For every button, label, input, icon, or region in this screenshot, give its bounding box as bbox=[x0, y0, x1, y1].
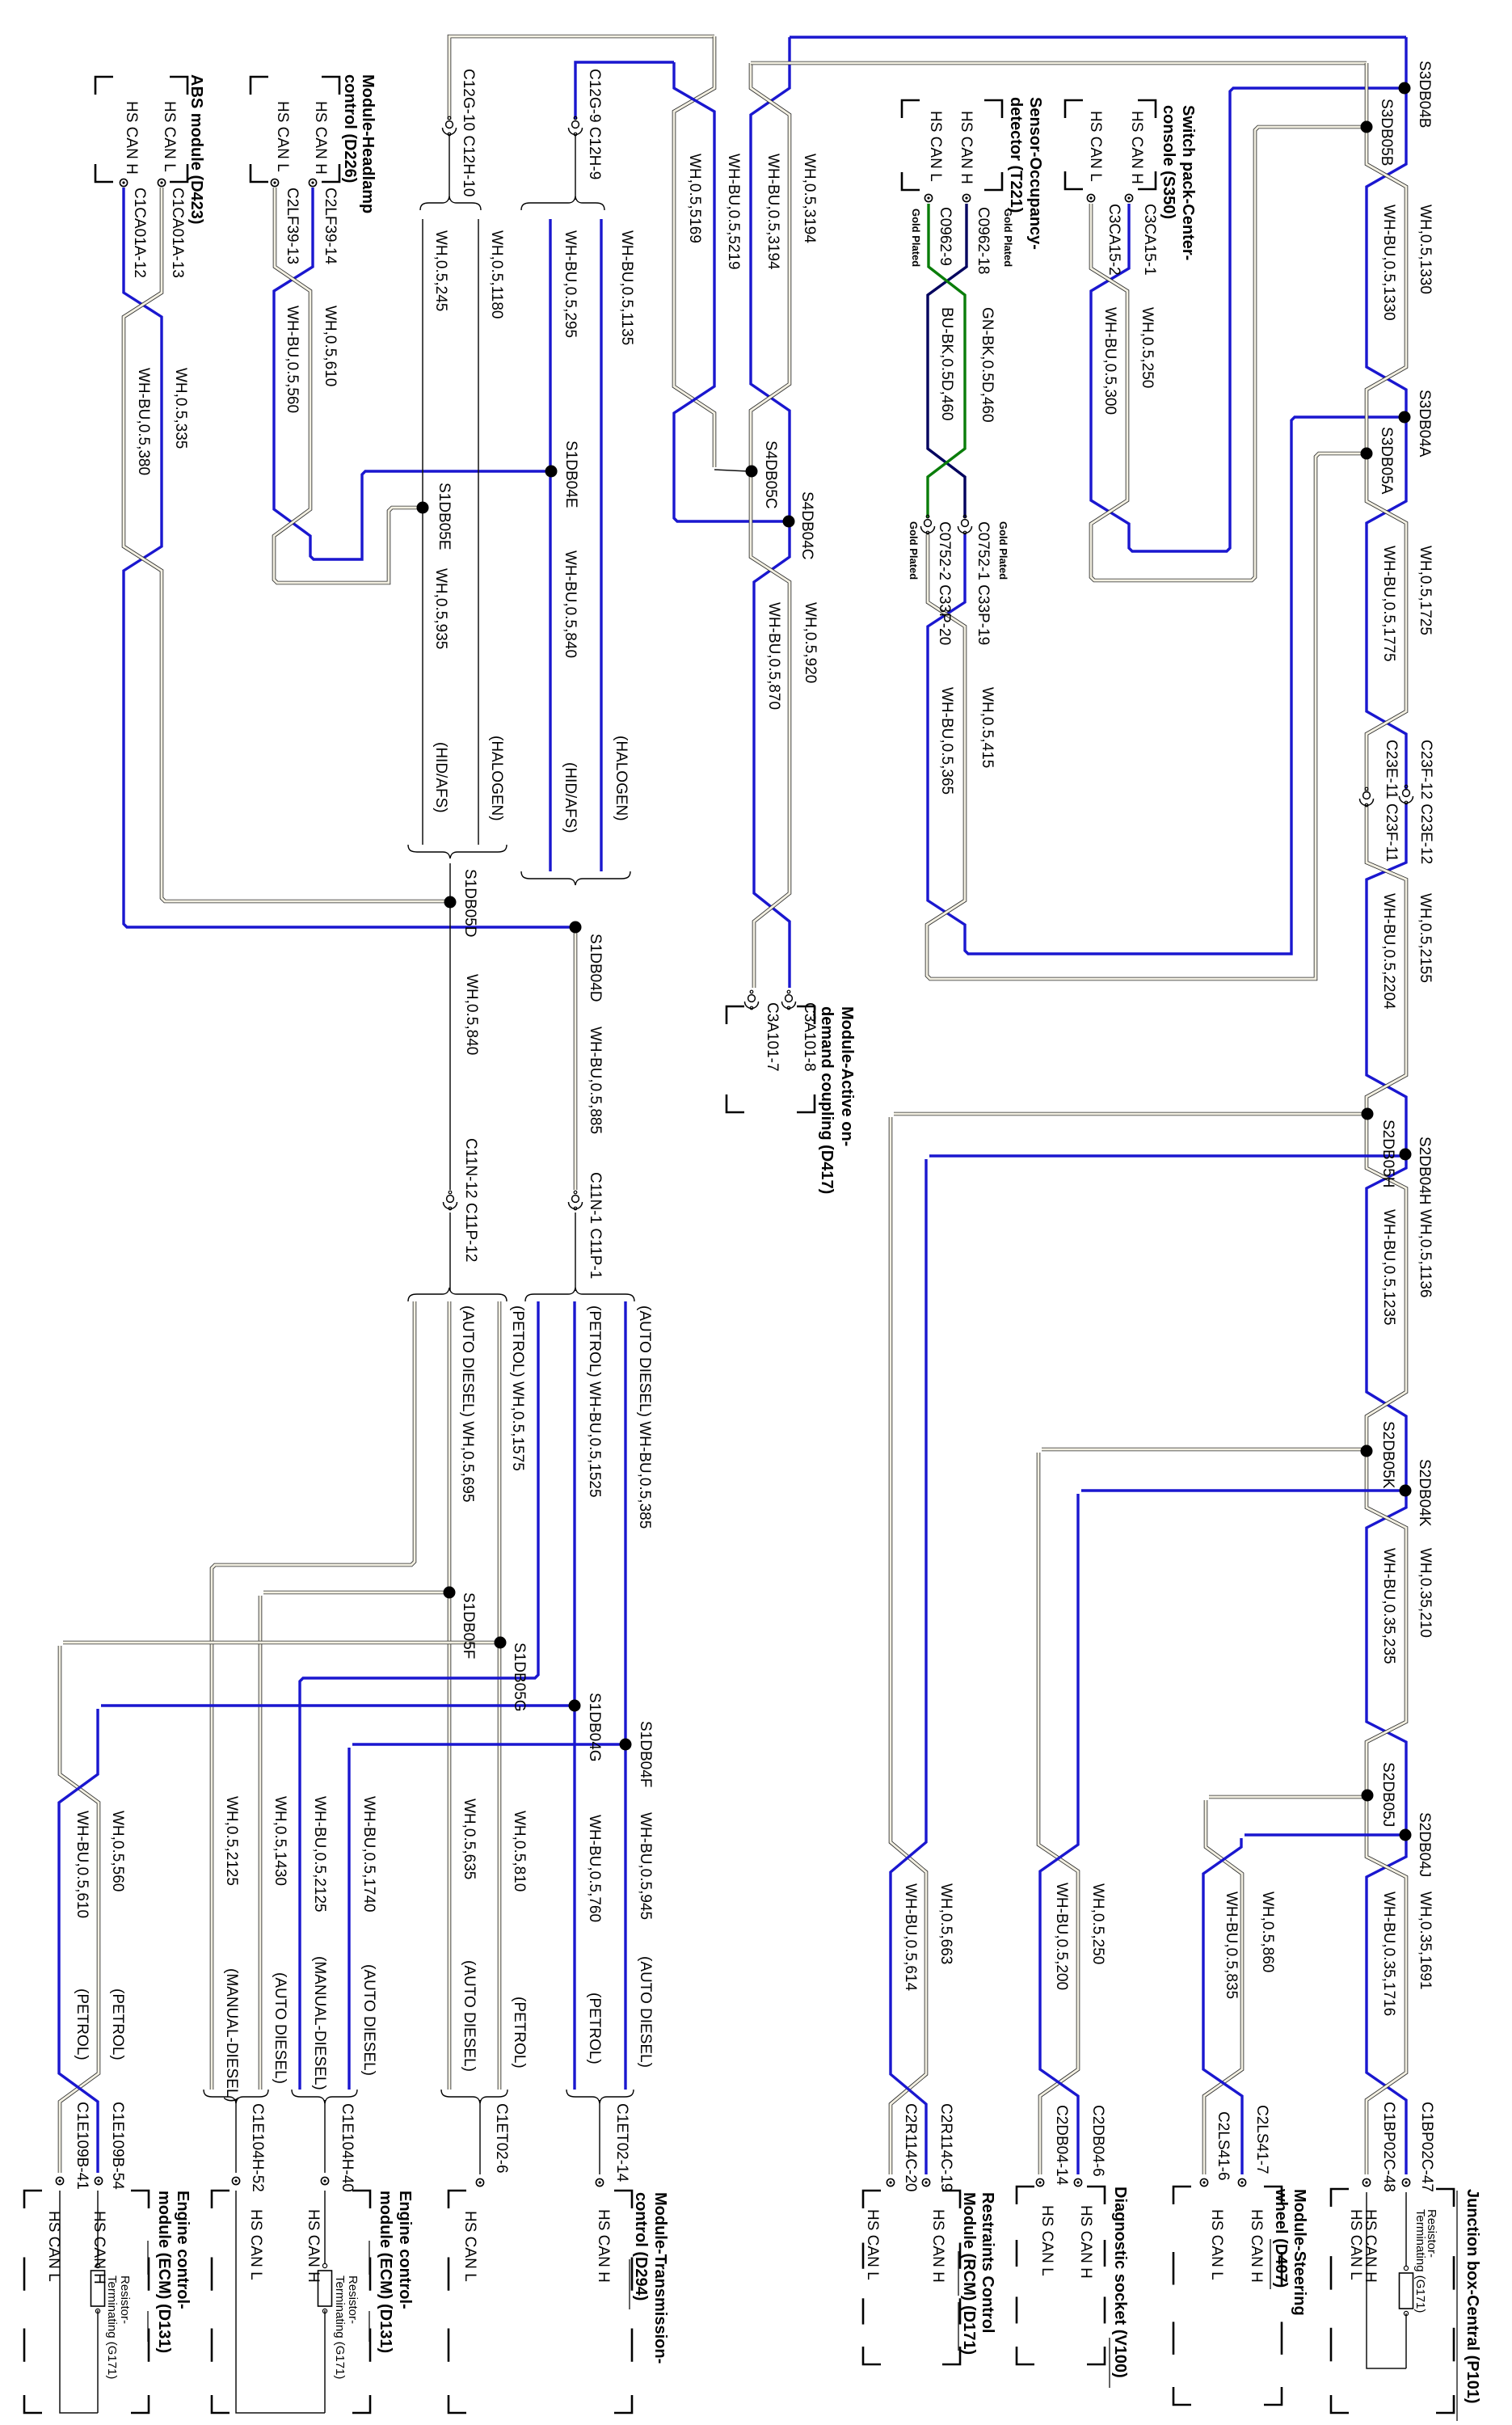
svg-text:WH,0.5,1430: WH,0.5,1430 bbox=[272, 1796, 289, 1886]
svg-text:WH-BU,0.5,885: WH-BU,0.5,885 bbox=[587, 1027, 604, 1134]
wire tail C1E104H-52 bbox=[235, 2100, 237, 2173]
wire branch S1DB04F to WH-BU,0.5,1740 bbox=[352, 1743, 622, 1745]
svg-text:(PETROL) WH,0.5,1575: (PETROL) WH,0.5,1575 bbox=[509, 1305, 526, 1471]
wire Switch CAN H WH-BU,0.5,300 bbox=[1091, 88, 1401, 551]
svg-text:ABS module (D423): ABS module (D423) bbox=[187, 74, 205, 225]
svg-text:S3DB04A: S3DB04A bbox=[1416, 390, 1433, 458]
svg-text:C1E109B-54: C1E109B-54 bbox=[109, 2102, 126, 2190]
component box Restraints Control Module (RCM) (D171) bbox=[863, 2191, 881, 2208]
pin C1E104H-52 bbox=[232, 2177, 239, 2184]
svg-text:Resistor-: Resistor- bbox=[118, 2275, 132, 2324]
svg-text:C1BP02C-47: C1BP02C-47 bbox=[1418, 2102, 1435, 2192]
splice S2DB05K bbox=[1361, 1445, 1373, 1457]
underline Junction box-Central (P101) bbox=[1456, 2191, 1458, 2421]
svg-text:(PETROL): (PETROL) bbox=[511, 1997, 528, 2069]
svg-text:WH-BU,0.5,1740: WH-BU,0.5,1740 bbox=[360, 1796, 377, 1913]
wire WH,0.5,840 below S1DB05D bbox=[449, 863, 451, 1190]
svg-text:S2DB05H: S2DB05H bbox=[1379, 1120, 1396, 1188]
wire tail C1ET02-6 bbox=[479, 2100, 481, 2174]
svg-text:GN-BK,0.5D,460: GN-BK,0.5D,460 bbox=[979, 307, 996, 423]
pin HL C2LF39-13 bbox=[271, 179, 278, 186]
pin S350 C3CA15-2 bbox=[1087, 194, 1094, 201]
wire backbone HS CAN H (WH-BU) bbox=[1367, 37, 1406, 790]
inline connector C23E-11 C23F-11 bbox=[1363, 792, 1371, 799]
resistor Resistor-Terminating (G171) P101 bbox=[1404, 2266, 1408, 2270]
svg-text:HS CAN H: HS CAN H bbox=[929, 2209, 946, 2283]
svg-text:S2DB04K: S2DB04K bbox=[1416, 1459, 1433, 1527]
svg-text:detector (T221): detector (T221) bbox=[1007, 97, 1025, 213]
svg-text:C1E104H-40: C1E104H-40 bbox=[339, 2103, 356, 2192]
svg-text:Terminating (G171): Terminating (G171) bbox=[1413, 2209, 1427, 2313]
svg-text:C2R114C-20: C2R114C-20 bbox=[902, 2103, 919, 2191]
component box Junction box-Central (P101) bbox=[1331, 2189, 1349, 2207]
svg-text:(AUTO DIESEL) WH,0.5,695: (AUTO DIESEL) WH,0.5,695 bbox=[459, 1305, 476, 1503]
wire WH,0.5,245 / WH,0.5,935 (HID/AFS) bbox=[422, 219, 423, 845]
svg-text:WH-BU,0.5,1135: WH-BU,0.5,1135 bbox=[618, 230, 635, 345]
svg-text:S1DB05D: S1DB05D bbox=[461, 869, 478, 938]
splice S2DB04K bbox=[1400, 1485, 1412, 1497]
svg-text:WH-BU,0.5,840: WH-BU,0.5,840 bbox=[562, 550, 579, 658]
underline (D171) bbox=[958, 2302, 959, 2351]
inline connector C3A101-8 bbox=[785, 995, 793, 1002]
svg-text:Gold Plated: Gold Plated bbox=[908, 521, 920, 580]
pin ABS C1CA01A-12 bbox=[120, 179, 127, 186]
wire branch S1DB05F to AUTO DIESEL WH,0.5,1430 bbox=[263, 1591, 446, 1595]
wire P101 CAN L internal bbox=[1367, 2192, 1406, 2368]
svg-text:(AUTO DIESEL) WH-BU,0.5,385: (AUTO DIESEL) WH-BU,0.5,385 bbox=[636, 1305, 653, 1529]
underline (ECM) left bbox=[147, 2241, 149, 2275]
svg-text:Gold Plated: Gold Plated bbox=[1002, 209, 1014, 267]
svg-text:C23F-12 C23E-12: C23F-12 C23E-12 bbox=[1417, 740, 1434, 864]
svg-text:(PETROL): (PETROL) bbox=[586, 1993, 603, 2064]
svg-text:C12G-9 C12H-9: C12G-9 C12H-9 bbox=[586, 69, 603, 179]
underline (RCM) bbox=[958, 2251, 959, 2296]
svg-text:C1ET02-14: C1ET02-14 bbox=[613, 2103, 630, 2182]
splice S1DB04G bbox=[569, 1700, 581, 1712]
svg-text:HS CAN L: HS CAN L bbox=[864, 2209, 881, 2280]
svg-text:WH,0.35,1691: WH,0.35,1691 bbox=[1417, 1891, 1434, 1989]
svg-text:WH-BU,0.5,614: WH-BU,0.5,614 bbox=[902, 1883, 919, 1991]
svg-text:S1DB04D: S1DB04D bbox=[587, 934, 604, 1002]
component box Module-Active on-demand coupling (D417) bbox=[727, 1006, 744, 1024]
svg-text:S2DB04H: S2DB04H bbox=[1416, 1137, 1433, 1205]
inline connector C11N-12 C11P-12 bbox=[447, 1196, 454, 1203]
wire top blue to WH-BU,0.5,5219 pair bbox=[575, 62, 674, 119]
underline (D131) left bbox=[147, 2311, 149, 2342]
splice S1DB04D bbox=[570, 921, 582, 934]
svg-text:S3DB04B: S3DB04B bbox=[1416, 61, 1433, 128]
wire WH,0.5,5169 bbox=[674, 36, 714, 467]
wire tail C1E104H-40 bbox=[324, 2100, 326, 2173]
brace brace merge to C1ET02-14 bbox=[566, 2090, 634, 2103]
svg-text:HS CAN H: HS CAN H bbox=[91, 2211, 107, 2284]
wire ECM left CAN L internal bbox=[60, 2191, 98, 2413]
splice S4DB04C bbox=[783, 516, 795, 528]
pin C2DB04-14 bbox=[1036, 2178, 1043, 2186]
wire BU-BK,0.5D,460 bbox=[928, 204, 967, 517]
svg-text:WH-BU,0.5,945: WH-BU,0.5,945 bbox=[637, 1812, 654, 1920]
wire branch S1DB04G to ECM petrol WH-BU,0.5,610 bbox=[101, 1704, 571, 1706]
splice S2DB04H bbox=[1400, 1149, 1412, 1161]
wire WH-BU,0.5,835 feeder from S2DB04J bbox=[1203, 1838, 1242, 2174]
wire GN-BK,0.5D,460 bbox=[928, 204, 965, 517]
wire WH,0.5,663 feeder to S2DB05H bbox=[891, 1117, 926, 2174]
svg-text:HS CAN L: HS CAN L bbox=[927, 111, 944, 182]
svg-text:C2DB04-14: C2DB04-14 bbox=[1053, 2105, 1070, 2186]
svg-text:WH,0.5,560: WH,0.5,560 bbox=[109, 1811, 126, 1891]
brace brace split below C11N-12 bbox=[408, 1288, 507, 1301]
svg-text:Sensor-Occupancy-: Sensor-Occupancy- bbox=[1026, 97, 1044, 250]
wire WH-BU,0.5,1525/760 PETROL bbox=[573, 1301, 575, 2090]
svg-text:S1DB05F: S1DB05F bbox=[460, 1592, 477, 1659]
svg-text:C1ET02-6: C1ET02-6 bbox=[493, 2103, 510, 2174]
wire top white to WH,0.5,5169 pair bbox=[449, 36, 714, 120]
svg-text:Module-Steering: Module-Steering bbox=[1291, 2189, 1308, 2316]
splice S1DB04F bbox=[620, 1739, 632, 1751]
svg-text:WH,0.5,245: WH,0.5,245 bbox=[432, 230, 449, 311]
wire WH,0.5,250 feeder to S2DB05K bbox=[1038, 1453, 1078, 2174]
svg-text:Diagnostic socket (V100): Diagnostic socket (V100) bbox=[1111, 2187, 1129, 2378]
inline connector C0752-2 C33P-20 bbox=[924, 520, 932, 527]
wire WH-BU,0.5,385/945 AUTO DIESEL bbox=[624, 1301, 626, 2090]
svg-text:BU-BK,0.5D,460: BU-BK,0.5D,460 bbox=[938, 307, 955, 420]
component box Diagnostic socket (V100) bbox=[1017, 2187, 1034, 2204]
inline connector C3A101-7 bbox=[748, 995, 756, 1002]
svg-text:Gold Plated: Gold Plated bbox=[910, 209, 922, 267]
svg-text:HS CAN L: HS CAN L bbox=[274, 101, 291, 172]
wire WH-BU,0.5,295 / WH-BU,0.5,840 (HID/AFS) bbox=[549, 219, 551, 871]
splice S3DB05B bbox=[1361, 121, 1373, 133]
wire ECM mid CAN L internal bbox=[236, 2191, 325, 2413]
wire WH-BU,0.5,200 feeder to S2DB04K bbox=[1040, 1494, 1078, 2174]
svg-text:HS CAN H: HS CAN H bbox=[305, 2209, 322, 2283]
svg-text:Restraints Control: Restraints Control bbox=[979, 2192, 996, 2333]
svg-text:WH,0.5,2155: WH,0.5,2155 bbox=[1417, 893, 1434, 983]
svg-text:(PETROL) WH-BU,0.5,1525: (PETROL) WH-BU,0.5,1525 bbox=[586, 1305, 603, 1498]
wire backbone HS CAN L (WH) bbox=[1367, 63, 1406, 793]
svg-text:S1DB04G: S1DB04G bbox=[586, 1693, 603, 1762]
svg-text:Junction box-Central (P101): Junction box-Central (P101) bbox=[1464, 2189, 1481, 2404]
svg-text:Gold Plated: Gold Plated bbox=[997, 521, 1009, 580]
component box Engine control-module ECM D131 mid bbox=[212, 2191, 230, 2208]
svg-text:WH,0.5,1136: WH,0.5,1136 bbox=[1417, 1209, 1434, 1297]
svg-text:WH,0.5,935: WH,0.5,935 bbox=[432, 568, 449, 649]
wire C11N-12 to brace bbox=[449, 1212, 451, 1291]
svg-text:C1BP02C-48: C1BP02C-48 bbox=[1380, 2102, 1397, 2192]
svg-text:HS CAN L: HS CAN L bbox=[45, 2211, 62, 2282]
component box Module-Headlamp control (D226) bbox=[251, 77, 268, 95]
wire WH,0.5,2125 MANUAL-DIESEL bbox=[212, 1301, 415, 2090]
wire branch S1DB05G to ECM petrol WH,0.5,560 bbox=[63, 1641, 496, 1645]
wire WH,0.5,1575/810 PETROL bbox=[498, 1301, 502, 2090]
svg-text:WH,0.5,1725: WH,0.5,1725 bbox=[1417, 546, 1434, 635]
wire WH-BU,0.5,885 below S1DB04D bbox=[574, 932, 578, 1190]
wire WH-BU,0.5,3194 / WH-BU,0.5,870 bbox=[751, 37, 790, 988]
wire jog to S4DB05C bbox=[714, 470, 748, 471]
svg-text:WH,0.5,1330: WH,0.5,1330 bbox=[1417, 205, 1434, 294]
pin C1BP02C-48 bbox=[1362, 2178, 1370, 2186]
svg-text:Terminating (G171): Terminating (G171) bbox=[105, 2275, 119, 2379]
svg-text:WH,0.5,250: WH,0.5,250 bbox=[1139, 307, 1156, 388]
wire WH,0.5,1180 (HALOGEN) bbox=[478, 219, 479, 845]
brace brace merge to S1DB05D bbox=[408, 845, 507, 858]
svg-text:C1CA01A-12: C1CA01A-12 bbox=[131, 188, 148, 278]
component box Module-Transmission-control (D294) bbox=[449, 2191, 466, 2208]
pin C1ET02-14 bbox=[596, 2178, 603, 2186]
svg-text:C12G-10 C12H-10: C12G-10 C12H-10 bbox=[460, 69, 477, 196]
svg-text:WH-BU,0.5,1330: WH-BU,0.5,1330 bbox=[1380, 205, 1397, 321]
svg-text:(PETROL): (PETROL) bbox=[74, 1988, 91, 2060]
splice S1DB05D bbox=[444, 896, 457, 909]
wire WH,0.5,415 bbox=[927, 453, 1363, 979]
underline (D407) bbox=[1270, 2239, 1271, 2289]
wire ABS CAN H WH-BU,0.5,380 bbox=[124, 188, 575, 927]
svg-text:HS CAN L: HS CAN L bbox=[461, 2211, 478, 2282]
svg-text:(HALOGEN): (HALOGEN) bbox=[488, 736, 505, 821]
wire top blue horizontal to S3DB04B elbow bbox=[790, 36, 1406, 38]
svg-text:WH,0.5,610: WH,0.5,610 bbox=[322, 306, 339, 386]
svg-text:C2DB04-6: C2DB04-6 bbox=[1089, 2105, 1106, 2177]
svg-text:control (D226): control (D226) bbox=[341, 74, 359, 183]
svg-text:C11N-12 C11P-12: C11N-12 C11P-12 bbox=[462, 1138, 479, 1262]
svg-text:WH-BU,0.5,380: WH-BU,0.5,380 bbox=[135, 368, 152, 475]
brace brace merge to C1E104H-40 bbox=[292, 2090, 357, 2103]
svg-text:C1E104H-52: C1E104H-52 bbox=[249, 2103, 266, 2192]
svg-text:C0752-1 C33P-19: C0752-1 C33P-19 bbox=[975, 521, 992, 645]
pin C1E104H-40 bbox=[321, 2177, 328, 2184]
svg-text:C0752-2 C33P-20: C0752-2 C33P-20 bbox=[936, 521, 953, 645]
svg-text:WH-BU,0.5,3194: WH-BU,0.5,3194 bbox=[764, 154, 781, 270]
wire Headlamp CAN H WH-BU,0.5,560 bbox=[274, 188, 548, 559]
svg-text:(AUTO DIESEL): (AUTO DIESEL) bbox=[272, 1972, 289, 2084]
component box Module-Steering wheel (D407) bbox=[1173, 2187, 1191, 2204]
underline (ECM) mid bbox=[369, 2241, 370, 2275]
svg-text:S2DB05J: S2DB05J bbox=[1379, 1762, 1396, 1827]
component box Engine control-module ECM D131 left bbox=[24, 2191, 42, 2208]
wire WH-BU,0.5,365 bbox=[928, 417, 1401, 954]
svg-text:WH-BU,0.5,5219: WH-BU,0.5,5219 bbox=[725, 154, 742, 270]
svg-text:demand coupling (D417): demand coupling (D417) bbox=[818, 1006, 836, 1194]
wire WH-BU,0.5,614 feeder to S2DB04H bbox=[891, 1159, 926, 2174]
svg-text:WH-BU,0.5,300: WH-BU,0.5,300 bbox=[1101, 307, 1118, 415]
inline connector C23F-12 C23E-12 bbox=[1403, 790, 1410, 797]
svg-text:Resistor-: Resistor- bbox=[346, 2275, 360, 2324]
pin C1E109B-41 bbox=[56, 2177, 63, 2184]
pin C2R114C-19 bbox=[922, 2178, 929, 2186]
brace brace split C12G-9 bbox=[521, 196, 604, 210]
svg-text:WH-BU,0.5,2204: WH-BU,0.5,2204 bbox=[1380, 893, 1397, 1010]
splice S1DB05G bbox=[495, 1637, 507, 1649]
svg-text:WH,0.5,663: WH,0.5,663 bbox=[937, 1883, 954, 1964]
wire WH,0.5,860 feeder from S2DB05J bbox=[1204, 1800, 1242, 2174]
svg-text:C1CA01A-13: C1CA01A-13 bbox=[169, 188, 186, 278]
brace brace merge to C1ET02-6 bbox=[441, 2090, 508, 2103]
wire WH-BU,0.5,1135 (HALOGEN) bbox=[600, 219, 602, 871]
svg-text:WH,0.5,1180: WH,0.5,1180 bbox=[488, 230, 505, 318]
pin C1BP02C-47 bbox=[1402, 2178, 1409, 2186]
svg-text:C3A101-7: C3A101-7 bbox=[764, 1002, 781, 1072]
pin C2LS41-7 bbox=[1238, 2178, 1245, 2186]
svg-text:C3A101-8: C3A101-8 bbox=[801, 1002, 818, 1072]
svg-text:WH-BU,0.5,760: WH-BU,0.5,760 bbox=[586, 1815, 603, 1922]
svg-text:HS CAN H: HS CAN H bbox=[1077, 2205, 1094, 2279]
svg-text:HS CAN L: HS CAN L bbox=[161, 101, 178, 172]
svg-text:(PETROL): (PETROL) bbox=[109, 1988, 126, 2060]
svg-text:(HALOGEN): (HALOGEN) bbox=[613, 736, 630, 821]
brace brace merge to S1DB04D bbox=[521, 871, 630, 885]
brace brace merge to C1E104H-52 bbox=[204, 2090, 268, 2103]
svg-text:S3DB05B: S3DB05B bbox=[1378, 99, 1395, 166]
svg-text:S1DB04F: S1DB04F bbox=[637, 1721, 654, 1787]
svg-text:Module (RCM) (D171): Module (RCM) (D171) bbox=[960, 2192, 978, 2355]
svg-text:WH-BU,0.5,1235: WH-BU,0.5,1235 bbox=[1380, 1209, 1397, 1326]
svg-text:WH,0.5,3194: WH,0.5,3194 bbox=[801, 154, 818, 243]
resistor Resistor-Terminating (G171) ECM mid bbox=[322, 2263, 326, 2267]
wire Headlamp CAN L WH,0.5,610 bbox=[274, 188, 419, 583]
svg-text:S3DB05A: S3DB05A bbox=[1378, 427, 1395, 495]
splice S3DB04B bbox=[1399, 82, 1411, 95]
svg-text:C3CA15-1: C3CA15-1 bbox=[1141, 204, 1158, 276]
svg-text:C2LS41-6: C2LS41-6 bbox=[1215, 2111, 1232, 2181]
svg-text:S1DB04E: S1DB04E bbox=[562, 441, 579, 508]
splice S2DB04J bbox=[1400, 1829, 1412, 1841]
inline connector C12G-10 C12H-10 bbox=[446, 121, 453, 129]
svg-text:S2DB05K: S2DB05K bbox=[1379, 1421, 1396, 1489]
wire WH-BU MANUAL-DIESEL elbow bbox=[300, 1301, 538, 2090]
svg-text:C11N-1 C11P-1: C11N-1 C11P-1 bbox=[587, 1172, 604, 1279]
brace brace split below C11N-1 bbox=[525, 1288, 634, 1301]
svg-text:HS CAN H: HS CAN H bbox=[958, 111, 975, 184]
svg-text:C2LF39-13: C2LF39-13 bbox=[284, 188, 301, 264]
wire ECM left CAN H internal w/ resistor bbox=[97, 2191, 99, 2263]
wire Switch CAN L WH,0.5,250 bbox=[1091, 127, 1363, 580]
svg-text:WH-BU,0.5,835: WH-BU,0.5,835 bbox=[1223, 1891, 1240, 1999]
svg-text:HS CAN L: HS CAN L bbox=[1038, 2205, 1055, 2276]
pin C1E109B-54 bbox=[95, 2177, 102, 2184]
svg-text:Engine control-: Engine control- bbox=[174, 2191, 192, 2309]
svg-text:S2DB04J: S2DB04J bbox=[1416, 1812, 1433, 1877]
svg-text:C2LF39-14: C2LF39-14 bbox=[322, 188, 339, 264]
inline connector C11N-1 C11P-1 bbox=[572, 1196, 579, 1203]
splice S1DB04E bbox=[545, 466, 558, 478]
svg-text:WH-BU,0.35,1716: WH-BU,0.35,1716 bbox=[1380, 1891, 1397, 2016]
svg-text:WH-BU,0.5,2125: WH-BU,0.5,2125 bbox=[311, 1796, 328, 1913]
pin T221 C0962-18 bbox=[962, 194, 970, 201]
splice S2DB05J bbox=[1362, 1790, 1374, 1802]
svg-text:S1DB05E: S1DB05E bbox=[436, 483, 453, 550]
svg-text:module (ECM) (D131): module (ECM) (D131) bbox=[377, 2191, 394, 2353]
svg-text:Module-Transmission-: Module-Transmission- bbox=[651, 2192, 669, 2364]
pin C2LS41-6 bbox=[1200, 2178, 1207, 2186]
wire P101 CAN H internal w/ resistor bbox=[1405, 2192, 1407, 2266]
svg-text:S4DB05C: S4DB05C bbox=[762, 441, 779, 509]
inline connector C0752-1 C33P-19 bbox=[962, 520, 969, 527]
splice S2DB05H bbox=[1362, 1108, 1374, 1120]
svg-text:WH,0.5,860: WH,0.5,860 bbox=[1259, 1891, 1276, 1972]
wire WH-BU,0.5,5219 bbox=[674, 62, 785, 521]
svg-text:WH-BU,0.5,365: WH-BU,0.5,365 bbox=[938, 687, 955, 795]
svg-text:(AUTO DIESEL): (AUTO DIESEL) bbox=[637, 1956, 654, 2068]
wire WH,0.5,3194 / WH,0.5,920 bbox=[751, 63, 790, 988]
wire tail C1ET02-14 bbox=[599, 2100, 600, 2174]
svg-text:WH-BU,0.5,295: WH-BU,0.5,295 bbox=[562, 230, 579, 338]
wire C12G-9 riser bbox=[575, 134, 576, 200]
wire WH,0.5,695/635 AUTO DIESEL bbox=[448, 1301, 452, 2090]
underline (D131) mid bbox=[369, 2311, 370, 2342]
inline connector C12G-9 C12H-9 bbox=[572, 121, 579, 129]
svg-text:C0962-9: C0962-9 bbox=[937, 207, 954, 266]
svg-text:HS CAN H: HS CAN H bbox=[1128, 111, 1145, 184]
svg-text:C2R114C-19: C2R114C-19 bbox=[937, 2103, 954, 2191]
svg-text:(HID/AFS): (HID/AFS) bbox=[432, 742, 449, 813]
svg-text:Module-Active on-: Module-Active on- bbox=[838, 1006, 856, 1146]
svg-text:WH,0.5,920: WH,0.5,920 bbox=[802, 602, 819, 683]
svg-text:HS CAN H: HS CAN H bbox=[312, 101, 329, 175]
svg-text:Switch pack-Center-: Switch pack-Center- bbox=[1179, 105, 1197, 260]
pin C2R114C-20 bbox=[887, 2178, 894, 2186]
svg-text:WH,0.5,335: WH,0.5,335 bbox=[172, 368, 189, 449]
svg-text:WH,0.5,635: WH,0.5,635 bbox=[461, 1799, 478, 1879]
underline (D294) bbox=[629, 2259, 630, 2309]
splice S4DB05C bbox=[746, 466, 758, 478]
svg-text:WH,0.35,210: WH,0.35,210 bbox=[1417, 1548, 1434, 1638]
pin S350 C3CA15-1 bbox=[1125, 194, 1132, 201]
svg-text:HS CAN H: HS CAN H bbox=[1248, 2209, 1265, 2283]
wire ABS CAN L WH,0.5,335 bbox=[124, 188, 447, 901]
svg-text:S1DB05G: S1DB05G bbox=[511, 1643, 528, 1712]
resistor Resistor-Terminating (G171) ECM left bbox=[95, 2263, 99, 2267]
splice S3DB04A bbox=[1399, 411, 1411, 424]
pin T221 C0962-9 bbox=[924, 194, 932, 201]
svg-text:HS CAN H: HS CAN H bbox=[595, 2209, 612, 2283]
svg-text:WH,0.5,840: WH,0.5,840 bbox=[463, 974, 480, 1055]
svg-text:module (ECM) (D131): module (ECM) (D131) bbox=[155, 2191, 173, 2353]
svg-text:C2LS41-7: C2LS41-7 bbox=[1253, 2105, 1270, 2174]
svg-text:wheel (D407): wheel (D407) bbox=[1272, 2188, 1290, 2288]
svg-text:(AUTO DIESEL): (AUTO DIESEL) bbox=[360, 1964, 377, 2076]
component box ABS module (D423) bbox=[95, 77, 113, 95]
svg-text:WH,0.5,810: WH,0.5,810 bbox=[511, 1811, 528, 1891]
splice S3DB05A bbox=[1361, 448, 1373, 460]
svg-text:WH-BU,0.35,235: WH-BU,0.35,235 bbox=[1380, 1548, 1397, 1664]
svg-text:WH-BU,0.5,870: WH-BU,0.5,870 bbox=[765, 602, 782, 710]
svg-text:C1E109B-41: C1E109B-41 bbox=[74, 2102, 91, 2190]
svg-text:HS CAN H: HS CAN H bbox=[123, 101, 140, 175]
svg-text:WH,0.5,250: WH,0.5,250 bbox=[1089, 1883, 1106, 1964]
svg-text:WH-BU,0.5,560: WH-BU,0.5,560 bbox=[284, 306, 301, 413]
svg-text:WH,0.5,5169: WH,0.5,5169 bbox=[686, 154, 703, 243]
svg-text:WH,0.5,415: WH,0.5,415 bbox=[979, 687, 996, 768]
svg-text:HS CAN L: HS CAN L bbox=[247, 2209, 264, 2280]
brace brace split C12G-10 bbox=[420, 196, 481, 210]
svg-text:S4DB04C: S4DB04C bbox=[798, 491, 815, 560]
svg-text:HS CAN L: HS CAN L bbox=[1087, 111, 1104, 182]
svg-text:Engine control-: Engine control- bbox=[396, 2191, 414, 2309]
svg-text:WH-BU,0.5,200: WH-BU,0.5,200 bbox=[1053, 1883, 1070, 1990]
svg-text:C0962-18: C0962-18 bbox=[975, 207, 992, 274]
svg-text:C23E-11 C23F-11: C23E-11 C23F-11 bbox=[1383, 740, 1400, 862]
svg-text:(HID/AFS): (HID/AFS) bbox=[562, 762, 579, 833]
svg-text:control (D294): control (D294) bbox=[632, 2192, 650, 2301]
wire C11N-1 to brace bbox=[575, 1212, 576, 1291]
wire ECM mid CAN H internal w/ resistor bbox=[324, 2191, 326, 2263]
svg-text:WH,0.5,2125: WH,0.5,2125 bbox=[223, 1796, 240, 1886]
svg-text:HS CAN L: HS CAN L bbox=[1208, 2209, 1225, 2280]
svg-text:C3CA15-2: C3CA15-2 bbox=[1106, 204, 1122, 276]
splice S1DB05F bbox=[444, 1587, 456, 1599]
wire C12G-10 riser bbox=[449, 134, 450, 200]
svg-text:console (S350): console (S350) bbox=[1160, 105, 1177, 219]
